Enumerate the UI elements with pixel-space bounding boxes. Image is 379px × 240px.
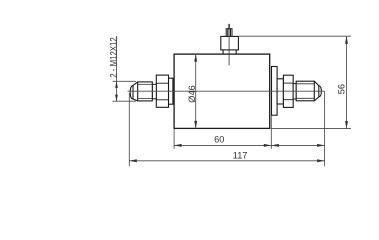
- dimension 117: [129, 92, 324, 167]
- dimension 60: [174, 115, 271, 149]
- left hex: [156, 75, 168, 107]
- svg-text:2 - M12X12: 2 - M12X12: [108, 37, 118, 78]
- dimension 56: [239, 36, 351, 128]
- left thread: [138, 82, 153, 101]
- dimension dia46: [195, 54, 197, 128]
- right neck: [293, 84, 296, 99]
- dimension right stub: [271, 144, 324, 146]
- dimension M12 callout: [113, 36, 137, 101]
- connector centerline: [228, 29, 230, 66]
- centerline: [128, 90, 326, 92]
- body: [174, 54, 270, 128]
- right thread: [296, 81, 314, 101]
- svg-text:Ø46: Ø46: [187, 85, 197, 102]
- right hex: [283, 75, 293, 107]
- right tip chamfer: [314, 81, 321, 101]
- svg-text:56: 56: [337, 84, 347, 94]
- left boss: [169, 78, 173, 104]
- svg-text:117: 117: [233, 151, 248, 161]
- connector base: [221, 36, 239, 53]
- right flange: [272, 67, 278, 116]
- right boss: [277, 79, 283, 104]
- left tip chamfer: [130, 82, 138, 101]
- svg-text:60: 60: [214, 135, 224, 145]
- left neck: [152, 84, 156, 99]
- connector plug: [226, 29, 232, 37]
- connector pin: [228, 24, 230, 29]
